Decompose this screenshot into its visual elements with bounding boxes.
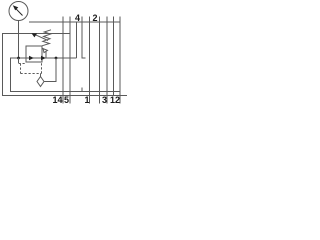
- port tick x82: [81, 17, 83, 23]
- wire channel x113.5: [113, 22, 115, 96]
- wire enclosure top edge: [2, 33, 70, 35]
- regulator R1 body: [26, 46, 42, 62]
- svg-text:14: 14: [52, 95, 62, 105]
- gauge needle arrowhead: [13, 5, 18, 10]
- regulator vent pole: [45, 52, 47, 59]
- port tick x70: [69, 17, 71, 23]
- wire channel x82 upper: [82, 22, 86, 58]
- wire gauge stem: [18, 21, 20, 59]
- node gauge tap junction: [17, 57, 20, 60]
- regulator adjustment arrowhead: [32, 33, 38, 37]
- flow arrowhead 1: [29, 56, 34, 60]
- wire filter stub: [40, 74, 42, 78]
- port tick x63: [62, 17, 64, 23]
- wire regulated flow line: [10, 57, 77, 59]
- svg-text:4: 4: [75, 13, 80, 23]
- svg-text:5: 5: [64, 95, 69, 105]
- wire downstream drop: [55, 58, 57, 82]
- svg-text:2: 2: [92, 13, 97, 23]
- port tick x120: [119, 17, 121, 23]
- regulator spring: [42, 30, 51, 46]
- wire channel x63: [62, 22, 64, 104]
- wire enclosure bottom edge (port rail 2): [2, 95, 127, 97]
- pilot line solid stub: [18, 58, 20, 63]
- filter F1 diamond: [37, 77, 44, 87]
- wire channel x76.5 (port 4): [76, 22, 78, 58]
- port tick x99.5: [99, 17, 101, 23]
- wire inner box left edge: [10, 58, 12, 92]
- port tick x107: [106, 17, 108, 23]
- pilot dashed box: [19, 63, 42, 74]
- wire enclosure left edge: [2, 33, 4, 96]
- wire inner box bottom edge (port rail 1): [10, 91, 120, 93]
- wire channel x107: [106, 22, 108, 104]
- wire channel x99.5: [99, 22, 101, 104]
- regulator adjustment arrow shaft: [36, 35, 49, 41]
- wire channel x82 lower stub: [81, 88, 83, 92]
- wire channel x70: [69, 22, 71, 104]
- port tick x113.5: [113, 17, 115, 23]
- node downstream junction: [55, 57, 58, 60]
- flow arrowhead 2: [41, 56, 46, 60]
- pressure gauge G1: [9, 2, 28, 21]
- wire top header rail: [29, 21, 121, 23]
- wire filter output line: [44, 81, 56, 83]
- port tick x89.5: [89, 17, 91, 23]
- wire channel x89.5: [89, 22, 91, 104]
- svg-text:12: 12: [110, 95, 120, 105]
- regulator vent triangle: [43, 49, 48, 53]
- svg-text:1: 1: [84, 95, 89, 105]
- wire channel x120: [119, 22, 121, 104]
- gauge needle: [16, 9, 23, 16]
- svg-text:3: 3: [102, 95, 107, 105]
